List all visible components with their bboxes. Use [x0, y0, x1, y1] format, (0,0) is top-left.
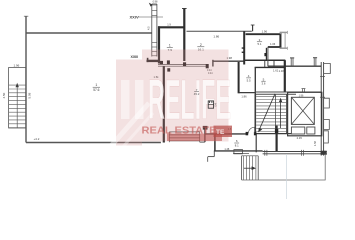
elevator top stub — [302, 89, 306, 93]
stub above room2 — [252, 25, 254, 31]
capped stub b — [313, 58, 317, 66]
watermark pink panels — [142, 50, 229, 142]
svg-text:2: 2 — [200, 43, 202, 47]
svg-text:1.96: 1.96 — [262, 29, 268, 33]
svg-text:1.9: 1.9 — [167, 23, 171, 27]
stove symbol — [208, 101, 213, 108]
bottom right lobby — [276, 126, 278, 152]
svg-text:1.06: 1.06 — [270, 42, 276, 46]
main staircase — [256, 96, 286, 131]
node left staircase box — [9, 68, 26, 129]
room 6 — [205, 133, 247, 135]
svg-text:8.1: 8.1 — [235, 143, 239, 147]
room 1 bottom wall — [158, 64, 186, 66]
watermark big letters — [121, 80, 130, 119]
wire top tick — [24, 15, 28, 17]
svg-text:5.1: 5.1 — [257, 42, 261, 46]
svg-text:1.46: 1.46 — [279, 69, 285, 73]
vestibule jogs — [204, 130, 206, 143]
elevator small boxes — [291, 127, 304, 134]
corridor jog wall — [212, 60, 214, 67]
svg-text:1.86: 1.86 — [213, 34, 219, 38]
svg-text:1.61: 1.61 — [273, 69, 279, 73]
svg-text:XXIII: XXIII — [131, 55, 139, 59]
thresholds — [265, 150, 304, 156]
wire bottom outer wall — [26, 142, 161, 144]
vent duct band — [245, 60, 286, 67]
svg-text:5.5: 5.5 — [247, 78, 251, 82]
svg-text:1: 1 — [95, 83, 97, 87]
terrace inner wall — [163, 66, 165, 142]
svg-text:4.5: 4.5 — [147, 26, 151, 30]
svg-text:0.98: 0.98 — [153, 1, 158, 4]
elevator shaft outer — [288, 92, 322, 136]
room 5 walls — [284, 60, 286, 92]
room 3 walls — [246, 34, 282, 47]
svg-text:1: 1 — [169, 44, 171, 48]
room 2 walls — [187, 30, 252, 32]
svg-text:1.48: 1.48 — [224, 148, 229, 151]
svg-text:1.96: 1.96 — [299, 95, 304, 98]
room 2 bottom wall — [186, 64, 208, 66]
svg-text:45.2: 45.2 — [194, 92, 200, 96]
right outer wall — [321, 62, 323, 156]
svg-text:1.86: 1.86 — [241, 95, 247, 99]
node stair XXIV (top) — [138, 3, 163, 57]
column symbol at room3 corner — [280, 31, 288, 50]
entrance steps south — [233, 150, 258, 180]
right wall notches — [320, 64, 330, 144]
room 2 right wall — [243, 31, 245, 64]
wire top outer wall — [26, 32, 152, 34]
svg-text:REAL ESTATE: REAL ESTATE — [142, 126, 217, 137]
bottom outer wall right part — [263, 151, 327, 153]
svg-text:RELIFE: RELIFE — [148, 68, 231, 132]
wire left stair arrow — [16, 86, 18, 128]
svg-text:+4.2: +4.2 — [34, 137, 40, 141]
svg-text:TE: TE — [216, 129, 225, 136]
stair up arrow right flight — [280, 100, 282, 128]
svg-text:5.08: 5.08 — [28, 92, 32, 98]
svg-text:57.6: 57.6 — [93, 88, 99, 92]
room 6 door — [246, 132, 249, 135]
svg-text:1.96: 1.96 — [13, 64, 19, 68]
room 1 walls — [158, 9, 187, 64]
corridor top wall right — [268, 65, 322, 67]
wire left outer wall — [25, 16, 27, 143]
stair bottom wall — [255, 133, 292, 135]
wall below XXIV stair — [147, 60, 159, 62]
fold line — [286, 154, 288, 199]
svg-text:XXIV: XXIV — [130, 15, 139, 20]
svg-text:2.45: 2.45 — [297, 136, 303, 140]
door jambs room1 — [160, 61, 163, 65]
watermark REAL ESTATE — [214, 126, 233, 137]
svg-text:4.50: 4.50 — [2, 92, 6, 98]
wire section line XXIV — [138, 16, 163, 18]
svg-text:1.58: 1.58 — [314, 141, 317, 146]
elevator cab with X — [291, 97, 314, 124]
capped stub a — [290, 58, 294, 66]
room 4 walls — [238, 62, 240, 93]
stair diagonal with arrow — [259, 94, 275, 131]
terrace edge line bottom right — [242, 154, 326, 180]
interior steps to terrace — [169, 132, 199, 142]
svg-text:3.6: 3.6 — [262, 82, 266, 86]
